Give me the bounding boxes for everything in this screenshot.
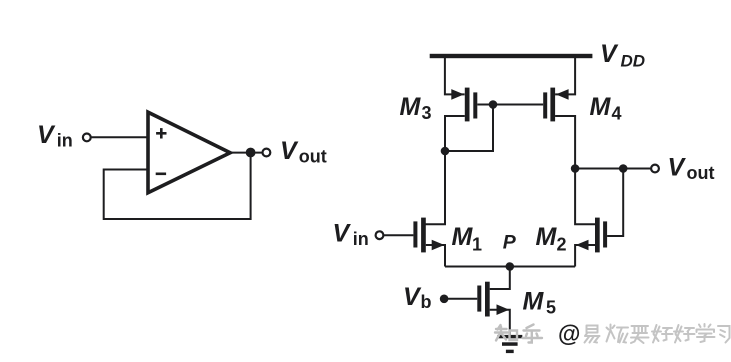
svg-text:M: M [523,288,545,316]
svg-text:out: out [299,146,327,166]
terminal Vb filled dot [440,295,449,304]
svg-text:2: 2 [557,235,567,255]
transistor M3 label [400,93,432,123]
terminal Vout (right) open circle [651,165,659,173]
svg-text:M: M [400,93,422,121]
node Vout (left buffer) label [280,137,327,166]
wire Vin to op-amp + input [91,136,148,138]
wire Vb to M5 gate [444,298,477,300]
svg-text:V: V [600,40,619,68]
svg-text:in: in [353,229,369,249]
svg-text:5: 5 [546,298,556,318]
transistor M5 channel bar [485,282,490,317]
wire M5 source to ground [490,310,510,335]
wire M3 diode connection (gate to drain) [445,105,493,152]
node Vin (right) label [333,219,369,249]
transistor M3 gate bar [473,92,477,118]
node Vb label [403,283,432,312]
transistor M5 label [523,288,557,318]
svg-text:V: V [403,283,422,311]
wire M3 gate to M4 gate [477,104,543,106]
svg-text:M: M [452,223,474,251]
transistor M4 gate bar [543,92,547,118]
svg-text:V: V [668,154,687,182]
terminal Vout (left buffer) open circle [263,149,271,157]
wire output net to Vout terminal [575,168,651,170]
junction feedback tap dot [619,164,628,173]
terminal Vin (right) open circle [376,231,384,239]
transistor M4 channel bar [550,88,555,122]
transistor M1 gate bar [413,221,417,247]
svg-text:DD: DD [621,52,646,71]
transistor M1 label [452,223,483,255]
wire M5 drain to node P [490,267,510,290]
transistor M2 channel bar [595,218,600,253]
transistor M2 label [536,223,567,255]
wire op-amp output [229,152,263,154]
svg-text:1: 1 [472,235,482,255]
svg-text:in: in [57,131,73,151]
terminal Vin (left buffer) open circle [83,134,91,142]
junction M3 drain node dot [441,147,450,156]
svg-text:V: V [280,137,299,165]
svg-text:out: out [687,163,715,183]
transistor M2 source arrow (NMOS) [576,240,589,251]
transistor M4 source arrow (PMOS) [556,89,569,100]
transistor M1 source arrow (NMOS) [432,240,445,251]
wire Vin to M1 gate [384,234,414,236]
transistor M5 source arrow (NMOS) [497,304,510,315]
svg-text:M: M [536,223,558,251]
node Vout (right) label [668,154,715,183]
net VDD label [600,40,645,71]
junction output node dot [246,148,256,158]
power VDD rail [430,54,593,58]
transistor M2 gate bar [603,221,607,247]
svg-text:V: V [333,219,352,247]
transistor M1 channel bar [421,218,426,253]
svg-text:P: P [503,232,517,254]
wire M3 drain down to M1 drain [425,116,464,224]
junction node P dot [506,262,515,271]
wire M4 source to VDD [555,58,575,94]
wire feedback loop [104,153,251,220]
ground symbol [497,335,522,353]
junction gate node dot [489,100,498,109]
transistor M3 source arrow (PMOS) [451,89,464,100]
wire feedback to M2 gate [607,169,623,237]
svg-text:V: V [37,121,56,149]
junction output net dot on M4/M2 drain [571,164,580,173]
svg-text:M: M [590,93,612,121]
node Vin (left buffer) label [37,121,73,151]
wire M3 source to VDD [445,58,465,94]
op-amp + input marking [156,128,166,138]
op-amp U1 triangle [148,112,230,193]
svg-text:3: 3 [422,103,432,123]
wire M4 drain down to M2 drain [555,116,595,224]
transistor M3 channel bar [465,88,470,122]
op-amp - input marking [156,173,166,176]
svg-text:b: b [421,292,432,312]
wire node P rail [445,266,575,268]
wire M2 source to node P rail [575,245,595,267]
wire M1 source to node P rail [426,245,445,267]
transistor M5 gate bar [477,286,481,312]
watermark Zhihu text [495,321,730,347]
svg-text:4: 4 [612,104,622,124]
svg-text:@: @ [558,321,580,347]
transistor M4 label [590,93,622,124]
